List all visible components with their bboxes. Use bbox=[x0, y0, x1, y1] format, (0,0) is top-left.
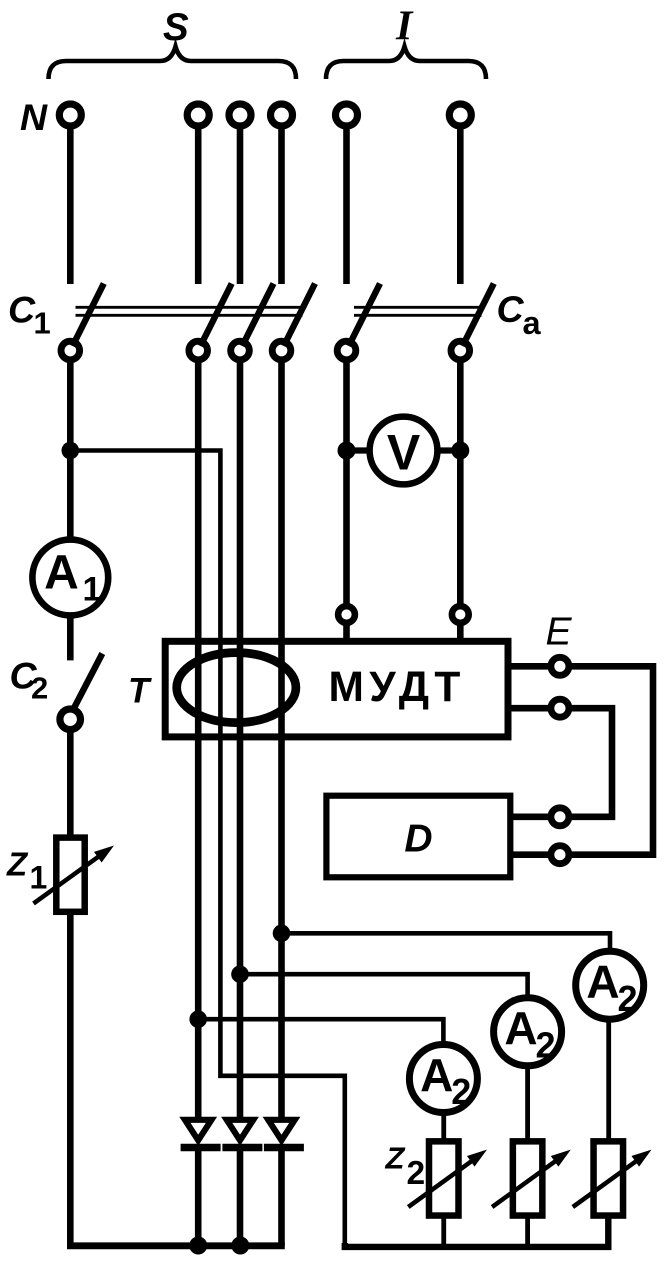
svg-text:Z: Z bbox=[385, 1141, 406, 1176]
wire A2-2 to Z2-2 bbox=[525, 1066, 530, 1143]
terminal MUDT in 2 bbox=[452, 606, 469, 623]
label C2 bbox=[10, 654, 49, 705]
wire D to D2 bbox=[510, 851, 548, 858]
terminal MUDT in 1 bbox=[338, 606, 355, 623]
block MUDT bbox=[165, 641, 508, 737]
impedance Z2-3 arrow bbox=[573, 1150, 652, 1207]
switch C1 blade pole A bbox=[200, 284, 231, 347]
terminal D1 bbox=[551, 808, 569, 826]
wire A2-1 to Z2-1 bbox=[441, 1112, 446, 1142]
node: junction N / branch bbox=[62, 442, 80, 460]
wire stub MUDT in 2 bbox=[457, 625, 464, 644]
impedance Z1 body bbox=[56, 838, 84, 912]
terminal E1 bbox=[551, 657, 569, 675]
node: junction phase C / branch 3 bbox=[273, 925, 291, 943]
terminal N bbox=[59, 104, 81, 126]
switch C1 linkage bar bbox=[76, 307, 303, 315]
svg-text:МУДТ: МУДТ bbox=[329, 664, 466, 711]
wire A2-3 to Z2-3 bbox=[606, 1019, 611, 1142]
wire stub MUDT in 1 bbox=[343, 625, 350, 644]
transformer T ellipse bbox=[177, 653, 296, 723]
wire C2 to Z1 bbox=[67, 731, 74, 838]
switch C1 blade pole C bbox=[284, 284, 315, 347]
wire N top bbox=[67, 127, 74, 284]
svg-text:C: C bbox=[497, 288, 525, 330]
svg-text:A: A bbox=[586, 956, 619, 1008]
label Z1 bbox=[6, 846, 47, 896]
node: V left junction bbox=[338, 442, 356, 460]
node: junction phase B / branch 2 bbox=[231, 965, 249, 983]
diode VD2 bbox=[222, 1120, 262, 1148]
switch Ca linkage bar bbox=[354, 307, 482, 315]
wire diode VD2 to bus 1 bbox=[237, 1151, 244, 1246]
impedance Z2-1 body bbox=[429, 1141, 459, 1215]
svg-text:S: S bbox=[163, 6, 189, 49]
wire MUDT to E1 bbox=[508, 663, 548, 670]
terminal E2 bbox=[551, 699, 569, 717]
svg-text:D: D bbox=[404, 817, 432, 860]
wire branch phase C to A2-3 bbox=[282, 933, 611, 950]
impedance Z2-1 arrow bbox=[408, 1150, 487, 1207]
svg-text:N: N bbox=[20, 96, 48, 138]
diode VD3 bbox=[264, 1120, 304, 1148]
node: bus junction VD2 bbox=[231, 1237, 249, 1255]
wire N: switch to A1 bbox=[67, 360, 74, 542]
node: junction phase A / branch 1 bbox=[189, 1010, 207, 1028]
terminal D2 bbox=[551, 846, 569, 864]
wire Z2-2 to bus bbox=[525, 1216, 530, 1247]
terminal I1 bbox=[336, 104, 358, 126]
wire bus 2 (Z2 common) bbox=[345, 1218, 609, 1247]
svg-text:1: 1 bbox=[30, 860, 48, 896]
wire E1 loop to D lower bbox=[572, 666, 654, 854]
impedance Z2-2 arrow bbox=[492, 1150, 571, 1207]
wire C top bbox=[278, 127, 285, 284]
brace S bbox=[49, 47, 297, 80]
node: bus junction VD1 bbox=[189, 1237, 207, 1255]
wire phase B down bbox=[237, 360, 244, 1118]
wire I1 down to MUDT terminal bbox=[343, 360, 350, 604]
terminal phase C bbox=[271, 104, 293, 126]
brace I bbox=[326, 47, 486, 80]
svg-text:2: 2 bbox=[618, 978, 638, 1019]
ammeter A2-2 bbox=[494, 998, 562, 1066]
wire E2 loop to D upper bbox=[572, 708, 613, 817]
svg-text:T: T bbox=[128, 672, 152, 711]
switch Ca contact pole 1 bbox=[337, 341, 356, 360]
wire diode VD1 to bus 1 bbox=[195, 1151, 202, 1246]
wire Z1 to bottom bus bbox=[67, 912, 74, 1246]
svg-text:I: I bbox=[395, 4, 414, 50]
svg-text:A: A bbox=[44, 546, 79, 599]
switch C1 contact pole N bbox=[61, 341, 80, 360]
terminal phase A bbox=[187, 104, 209, 126]
wire V stubs bbox=[347, 447, 461, 453]
switch C2 contact bbox=[60, 709, 81, 730]
wire Z2-1 to bus bbox=[441, 1216, 446, 1247]
wire B top bbox=[237, 127, 244, 284]
impedance Z1 arrow bbox=[34, 846, 115, 904]
block D bbox=[326, 796, 510, 878]
wire diode VD3 to bus 1 bbox=[278, 1151, 285, 1246]
switch C1 blade pole N bbox=[73, 284, 104, 347]
wire phase C down bbox=[278, 360, 285, 1118]
svg-text:1: 1 bbox=[34, 306, 51, 341]
label Ca bbox=[497, 288, 542, 341]
ammeter A2-3 bbox=[576, 951, 644, 1019]
svg-text:V: V bbox=[387, 424, 421, 480]
ammeter A2-1 bbox=[409, 1045, 477, 1113]
svg-text:C: C bbox=[8, 289, 36, 331]
wire branch phase B to A2-2 bbox=[240, 974, 528, 996]
label Z2 bbox=[385, 1141, 426, 1192]
switch C2 blade bbox=[74, 654, 103, 710]
svg-text:2: 2 bbox=[451, 1071, 471, 1112]
terminal I2 bbox=[449, 104, 471, 126]
wire branch (N junction to bottom-right bus riser) bbox=[70, 451, 345, 1245]
wire I2 top bbox=[457, 127, 464, 284]
diode VD1 bbox=[181, 1120, 221, 1148]
svg-text:a: a bbox=[523, 305, 542, 341]
impedance Z2-3 body bbox=[594, 1141, 624, 1215]
svg-text:A: A bbox=[504, 1002, 537, 1054]
wire phase A down bbox=[195, 360, 202, 1118]
switch Ca blade pole 2 bbox=[463, 284, 494, 347]
svg-text:2: 2 bbox=[31, 671, 48, 706]
label C1 bbox=[8, 289, 51, 341]
wire bus 1 bbox=[67, 1242, 285, 1249]
wire branch phase A to A2-1 bbox=[198, 1019, 443, 1042]
svg-text:E: E bbox=[546, 611, 573, 654]
switch C1 contact pole A bbox=[189, 341, 208, 360]
wire MUDT to E2 bbox=[508, 705, 548, 712]
svg-text:2: 2 bbox=[536, 1024, 556, 1065]
svg-text:1: 1 bbox=[83, 570, 102, 608]
wire A1 to C2 bbox=[67, 615, 74, 660]
wire I1 top bbox=[343, 127, 350, 284]
switch C1 blade pole B bbox=[242, 284, 273, 347]
switch C1 contact pole B bbox=[231, 341, 250, 360]
wire D to D1 bbox=[510, 813, 548, 820]
switch Ca blade pole 1 bbox=[349, 284, 380, 347]
wire Z2-3 to bus bbox=[606, 1216, 611, 1247]
wire A top bbox=[195, 127, 202, 284]
node: V right junction bbox=[451, 442, 469, 460]
svg-text:2: 2 bbox=[407, 1155, 426, 1192]
terminal phase B bbox=[229, 104, 251, 126]
impedance Z2-2 body bbox=[513, 1141, 543, 1215]
wire I2 down to MUDT terminal bbox=[457, 360, 464, 604]
switch Ca contact pole 2 bbox=[451, 341, 470, 360]
ammeter A1 bbox=[32, 540, 108, 616]
svg-text:A: A bbox=[420, 1049, 453, 1101]
voltmeter V bbox=[370, 417, 438, 485]
svg-text:Z: Z bbox=[6, 846, 29, 883]
switch C1 contact pole C bbox=[272, 341, 291, 360]
